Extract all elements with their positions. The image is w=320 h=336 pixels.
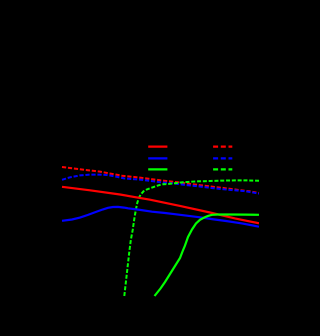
legend dashed blue sample bbox=[213, 157, 232, 159]
legend solid red sample bbox=[148, 146, 167, 148]
legend solid blue sample bbox=[148, 157, 167, 159]
blue solid curve bbox=[62, 207, 259, 227]
green solid curve bbox=[155, 215, 260, 297]
red dashed curve bbox=[62, 167, 259, 193]
legend solid green sample bbox=[148, 168, 167, 170]
legend dashed red sample bbox=[213, 146, 232, 148]
blue dashed curve bbox=[62, 175, 259, 194]
red solid curve bbox=[62, 187, 259, 224]
legend dashed green sample bbox=[213, 168, 232, 170]
green dashed curve bbox=[124, 180, 259, 296]
